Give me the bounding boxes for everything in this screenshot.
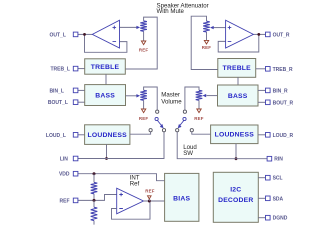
pin TREB_R bbox=[256, 68, 266, 70]
junction dot LOUDNESS R / RIN bbox=[235, 157, 238, 160]
pin SDA bbox=[258, 197, 265, 199]
svg-text:SDA: SDA bbox=[273, 196, 284, 202]
REF terminal under master volume L bbox=[141, 109, 145, 113]
wire U3 output to BIAS bbox=[144, 200, 165, 202]
switch L right contact bbox=[162, 129, 165, 132]
wire OUT_R from op-amp U2 bbox=[253, 33, 265, 35]
wire master volume L pot bottom bbox=[143, 100, 145, 109]
switch L pivot bbox=[155, 117, 158, 120]
svg-text:BOUT_R: BOUT_R bbox=[273, 100, 294, 106]
svg-text:TREBLE: TREBLE bbox=[223, 65, 252, 72]
svg-text:SW: SW bbox=[183, 150, 193, 157]
wire master volume R pot top to switch bbox=[185, 87, 199, 110]
pin OUT_R bbox=[266, 32, 271, 37]
resistor R1 bbox=[93, 174, 95, 201]
wire TREBLE R to BASS R bbox=[237, 77, 239, 85]
wire BASS R out to master volume pot R bbox=[206, 95, 217, 97]
junction dot U3 output bbox=[148, 200, 151, 203]
block BASS R bbox=[218, 85, 259, 106]
pin RIN wire from switch R bbox=[177, 132, 267, 159]
wire LOUDNESS L to switch contact bbox=[130, 132, 151, 134]
svg-text:REF: REF bbox=[139, 47, 148, 52]
wire master volume L pot top to switch bbox=[144, 87, 158, 110]
block LOUDNESS L bbox=[85, 125, 130, 145]
block TREBLE L bbox=[85, 59, 126, 74]
wiper arrow attenuator L bbox=[136, 26, 140, 29]
pin OUT_L bbox=[73, 32, 78, 37]
svg-text:REF: REF bbox=[60, 198, 70, 204]
svg-text:BIN_R: BIN_R bbox=[273, 88, 288, 94]
svg-text:LOUD_R: LOUD_R bbox=[273, 133, 294, 139]
svg-text:REF: REF bbox=[139, 116, 148, 121]
junction dot at OUT_R node bbox=[257, 33, 260, 36]
svg-text:I2C: I2C bbox=[230, 187, 241, 194]
wiper arrow master volume L bbox=[136, 94, 140, 97]
svg-text:LOUD_L: LOUD_L bbox=[46, 133, 66, 139]
wire switch to LOUDNESS R bbox=[192, 132, 211, 134]
wire U1 + input to attenuator pot wiper bbox=[120, 26, 137, 28]
block BIAS bbox=[165, 173, 199, 221]
svg-text:OUT_L: OUT_L bbox=[50, 32, 66, 38]
pin TREB_L bbox=[77, 68, 85, 70]
wire attenuator pot R bottom to REF bbox=[206, 32, 208, 40]
potentiometer master volume R bbox=[196, 90, 203, 100]
svg-text:LOUDNESS: LOUDNESS bbox=[88, 132, 128, 139]
REF terminal under attenuator R bbox=[204, 40, 208, 44]
junction dot at OUT_L node bbox=[83, 33, 86, 36]
REF terminal under master volume R bbox=[197, 109, 201, 113]
wiper arrow master volume R bbox=[203, 94, 207, 97]
switch L top contact bbox=[156, 110, 159, 113]
svg-text:Volume: Volume bbox=[161, 98, 182, 105]
wire BASS L out to master volume pot bbox=[126, 95, 137, 97]
pin VDD bbox=[77, 174, 165, 181]
svg-text:VDD: VDD bbox=[59, 172, 70, 178]
potentiometer attenuator R bbox=[203, 21, 210, 32]
wire U2 feedback loop bbox=[218, 34, 259, 52]
svg-text:REF: REF bbox=[145, 188, 154, 193]
wire U1 feedback loop bbox=[85, 34, 127, 52]
block LOUDNESS R bbox=[211, 125, 258, 144]
wire TREBLE L output up to attenuator pot top bbox=[125, 17, 157, 69]
svg-text:SCL: SCL bbox=[273, 176, 283, 182]
svg-text:BIAS: BIAS bbox=[173, 195, 190, 202]
op-amp U3 internal reference buffer bbox=[117, 188, 144, 214]
switch L left contact bbox=[149, 129, 152, 132]
resistor R2 bbox=[93, 200, 95, 224]
block TREBLE R bbox=[218, 59, 256, 78]
svg-text:BASS: BASS bbox=[228, 93, 248, 100]
switch R left contact bbox=[176, 129, 179, 132]
pin BOUT_L bbox=[77, 101, 85, 103]
pin SCL bbox=[258, 177, 265, 179]
wire LOUDNESS L bottom to LIN bbox=[106, 144, 108, 158]
junction dot REF / divider bbox=[93, 199, 96, 202]
REF terminal under attenuator L bbox=[141, 41, 145, 45]
svg-text:Master: Master bbox=[161, 91, 180, 98]
block I2C DECODER bbox=[213, 172, 258, 222]
pin LOUD_R bbox=[258, 134, 266, 136]
switch L lever bbox=[157, 120, 161, 126]
switch R top contact bbox=[183, 110, 186, 113]
pin LOUD_L bbox=[77, 134, 85, 136]
svg-text:LIN: LIN bbox=[60, 157, 68, 163]
junction dot LOUDNESS L / LIN bbox=[105, 157, 108, 160]
svg-text:TREB_L: TREB_L bbox=[50, 67, 69, 73]
svg-text:DECODER: DECODER bbox=[218, 197, 253, 204]
svg-text:LOUDNESS: LOUDNESS bbox=[215, 132, 255, 139]
svg-text:Ref: Ref bbox=[130, 181, 140, 188]
REF terminal at U3 output bbox=[148, 199, 150, 201]
switch R pivot bbox=[183, 117, 186, 120]
svg-text:BASS: BASS bbox=[95, 92, 115, 99]
svg-text:TREB_R: TREB_R bbox=[273, 67, 293, 73]
wire TREBLE R output up to attenuator pot R top bbox=[191, 16, 218, 69]
svg-text:RIN: RIN bbox=[274, 157, 283, 163]
pin REF bbox=[77, 195, 117, 201]
pin BIN_L bbox=[77, 89, 85, 91]
wire U2 + input to attenuator pot R wiper bbox=[214, 27, 226, 29]
potentiometer master volume L bbox=[140, 90, 147, 100]
switch R lever bbox=[180, 120, 184, 126]
potentiometer attenuator L bbox=[140, 21, 147, 31]
wire OUT_L to op-amp U1 input bbox=[77, 33, 93, 35]
svg-text:With Mute: With Mute bbox=[157, 8, 185, 15]
block BASS L bbox=[85, 85, 126, 106]
switch R right contact bbox=[190, 129, 193, 132]
svg-text:REF: REF bbox=[194, 116, 203, 121]
pin DGND bbox=[258, 217, 265, 219]
pin BIN_R bbox=[258, 89, 266, 91]
wire LOUDNESS R bottom to RIN bbox=[235, 144, 237, 159]
svg-text:BOUT_L: BOUT_L bbox=[48, 100, 68, 106]
wire U3 feedback bbox=[112, 201, 151, 219]
wiper arrow attenuator R bbox=[210, 26, 214, 29]
svg-text:REF: REF bbox=[202, 45, 211, 50]
svg-text:OUT_R: OUT_R bbox=[273, 32, 290, 38]
pin BOUT_R bbox=[258, 101, 266, 103]
svg-text:BIN_L: BIN_L bbox=[49, 88, 63, 94]
wire attenuator pot L bottom to REF bbox=[143, 31, 145, 41]
junction dot VDD / R1 bbox=[93, 172, 96, 175]
svg-text:DGND: DGND bbox=[273, 216, 288, 222]
svg-text:TREBLE: TREBLE bbox=[91, 64, 120, 71]
wire master volume R pot bottom bbox=[198, 100, 200, 109]
op-amp U1 (left, output west) bbox=[92, 20, 119, 48]
op-amp U2 (right, output east) bbox=[226, 20, 254, 48]
wire TREBLE L to BASS L bbox=[105, 74, 107, 84]
pin LIN bbox=[77, 132, 164, 159]
